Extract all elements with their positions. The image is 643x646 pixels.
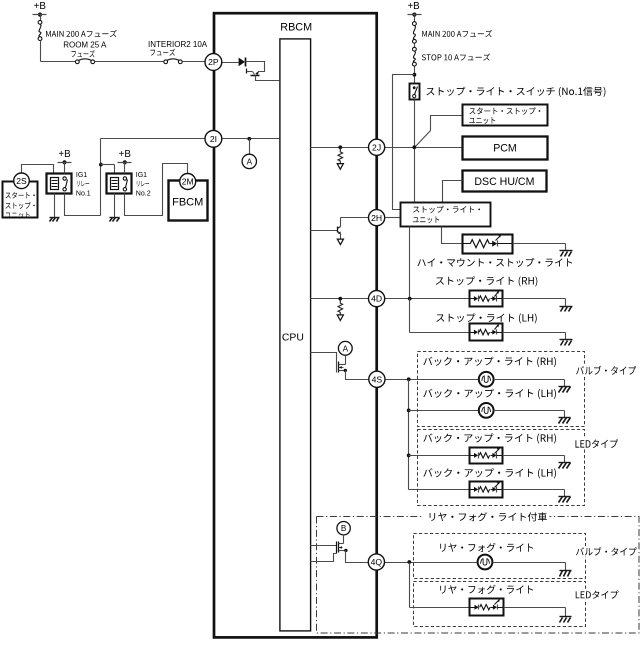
svg-text:B: B [341,524,347,533]
svg-text:+B: +B [119,149,132,160]
svg-text:2S: 2S [16,176,27,186]
svg-text:4S: 4S [372,374,383,384]
svg-text:2P: 2P [208,57,219,67]
svg-text:2I: 2I [210,134,217,144]
svg-text:CPU: CPU [282,333,304,344]
svg-text:PCM: PCM [493,143,517,155]
svg-text:RBCM: RBCM [280,22,312,34]
svg-text:A: A [343,344,349,353]
svg-text:2M: 2M [182,177,194,187]
svg-text:4Q: 4Q [371,557,383,567]
svg-text:+B: +B [34,1,47,12]
svg-text:DSC HU/CM: DSC HU/CM [474,176,534,188]
svg-text:4D: 4D [371,294,382,304]
svg-text:2H: 2H [371,213,382,223]
svg-text:A: A [247,157,253,166]
svg-text:+B: +B [58,149,71,160]
svg-text:2J: 2J [372,142,381,152]
svg-text:IG1: IG1 [76,172,87,179]
svg-text:+B: +B [407,1,420,12]
svg-text:FBCM: FBCM [172,196,203,208]
svg-text:INTERIOR2 10A: INTERIOR2 10A [148,40,208,49]
svg-text:No.2: No.2 [136,190,151,197]
svg-text:IG1: IG1 [136,172,147,179]
svg-text:ROOM 25 A: ROOM 25 A [63,41,107,50]
svg-text:No.1: No.1 [76,190,91,197]
